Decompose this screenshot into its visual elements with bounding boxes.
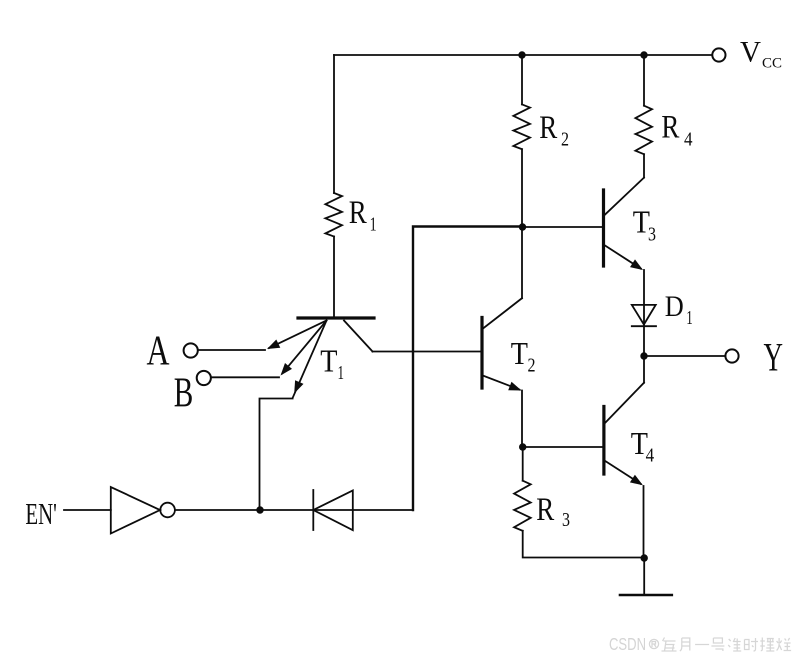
svg-text:T: T	[511, 335, 529, 371]
wire T2 emitter down	[521, 391, 523, 448]
svg-text:R: R	[539, 110, 557, 146]
label R2	[539, 110, 569, 151]
svg-text:4: 4	[646, 445, 655, 467]
svg-text:1: 1	[370, 214, 377, 236]
resistor R1	[325, 193, 342, 237]
svg-text:1: 1	[686, 307, 693, 329]
wire T3 base	[523, 226, 603, 228]
terminal B	[197, 371, 211, 385]
transistor T2 base bar	[480, 318, 483, 389]
transistor T1 emitter 2	[281, 321, 327, 376]
label R4	[661, 110, 692, 151]
transistor T2 emitter	[483, 376, 522, 391]
transistor T4 emitter	[606, 461, 643, 485]
label T1	[320, 343, 344, 384]
node T3 base junction	[519, 223, 526, 230]
svg-text:3: 3	[648, 224, 656, 246]
label T3	[633, 204, 656, 246]
svg-text:2: 2	[528, 355, 536, 377]
label R3	[536, 492, 570, 531]
inverter G1	[111, 487, 175, 534]
svg-text:A: A	[147, 329, 170, 375]
svg-text:Y: Y	[764, 334, 784, 379]
label T4	[631, 425, 654, 467]
terminal A	[184, 343, 198, 357]
svg-text:T: T	[320, 343, 338, 379]
wire T3 emitter to D1	[643, 270, 645, 356]
wire input B	[211, 376, 279, 378]
wire EN input	[64, 509, 111, 511]
resistor R2	[513, 104, 530, 149]
label R1	[349, 195, 377, 235]
transistor T2 collector	[483, 298, 522, 328]
wire R3 bottom	[523, 531, 645, 558]
svg-text:R: R	[661, 110, 679, 146]
transistor T1 collector	[344, 321, 373, 352]
ground	[620, 558, 672, 595]
svg-text:CC: CC	[762, 56, 782, 72]
wire R4 top	[643, 55, 645, 106]
wire node to diode branch	[413, 227, 523, 511]
wire R2 bottom	[521, 149, 523, 227]
resistor R4	[635, 106, 652, 155]
svg-text:4: 4	[684, 129, 693, 151]
wire R1 top	[333, 55, 335, 193]
wire emitter3 step	[260, 399, 293, 511]
wire Y node down	[643, 356, 645, 383]
wire T4 base	[523, 446, 603, 448]
node R2-rail junction	[518, 51, 525, 58]
diode D1	[632, 305, 656, 326]
wire T1 collector to T2 base	[373, 351, 481, 353]
wire T2 collector up	[521, 227, 523, 298]
label D1	[665, 290, 693, 329]
terminal Y	[725, 349, 738, 362]
wire R3 top	[522, 447, 524, 481]
transistor T1 emitter 1	[267, 321, 327, 350]
node output Y junction	[640, 352, 647, 359]
wire R2 top	[521, 55, 523, 104]
node R4-rail junction	[640, 51, 647, 58]
svg-text:R: R	[349, 195, 367, 231]
wire R4 bottom to T3	[643, 154, 645, 177]
svg-text:R: R	[536, 492, 554, 528]
transistor T3 collector	[605, 178, 644, 215]
label T2	[511, 335, 536, 377]
resistor R3	[514, 481, 531, 531]
node ground junction	[641, 554, 648, 561]
transistor T1 emitter 3	[293, 321, 327, 399]
svg-text:B: B	[174, 371, 194, 417]
wire input A	[198, 349, 265, 351]
transistor T1 base bar	[298, 316, 374, 319]
svg-text:EN': EN'	[25, 496, 57, 531]
transistor T4 collector	[606, 383, 645, 423]
wire Vcc rail	[334, 54, 712, 56]
svg-text:1: 1	[338, 362, 345, 384]
svg-text:3: 3	[562, 509, 570, 531]
svg-text:CSDN: CSDN	[609, 634, 646, 654]
wire to Y terminal	[644, 355, 725, 357]
wire inverter output	[175, 509, 413, 511]
svg-text:V: V	[740, 36, 761, 69]
svg-text:2: 2	[561, 129, 569, 151]
node T4 base junction	[519, 443, 526, 450]
transistor T3 base bar	[602, 190, 605, 266]
svg-text:D: D	[665, 290, 684, 323]
transistor T3 emitter	[605, 246, 643, 271]
wire T4 emitter down	[643, 486, 645, 558]
transistor T4 base bar	[602, 407, 605, 475]
diode D2 feedback	[313, 490, 353, 530]
Vcc terminal	[712, 48, 725, 61]
node inverter output junction	[256, 506, 263, 513]
wire R1 bottom to T1 base	[333, 237, 335, 318]
label Vcc	[740, 36, 782, 72]
